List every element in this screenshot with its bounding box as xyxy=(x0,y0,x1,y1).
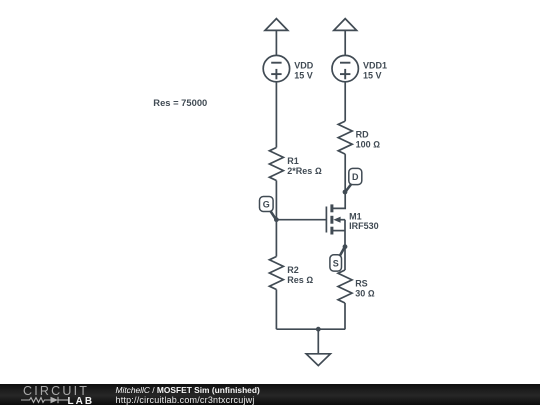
svg-text:15 V: 15 V xyxy=(294,71,313,81)
svg-text:M1: M1 xyxy=(349,211,362,221)
svg-text:30 Ω: 30 Ω xyxy=(355,289,375,299)
svg-text:RD: RD xyxy=(356,129,369,139)
svg-text:D: D xyxy=(352,172,359,182)
svg-text:RS: RS xyxy=(355,279,368,289)
svg-text:S: S xyxy=(333,259,339,269)
svg-text:VDD: VDD xyxy=(294,61,314,71)
svg-text:IRF530: IRF530 xyxy=(349,221,379,231)
svg-text:VDD1: VDD1 xyxy=(363,61,387,71)
svg-text:Res Ω: Res Ω xyxy=(287,275,313,285)
svg-text:2*Res Ω: 2*Res Ω xyxy=(287,166,322,176)
svg-text:100 Ω: 100 Ω xyxy=(356,139,381,149)
svg-text:R2: R2 xyxy=(287,265,299,275)
svg-text:G: G xyxy=(263,200,270,210)
svg-text:R1: R1 xyxy=(287,156,299,166)
svg-text:Res = 75000: Res = 75000 xyxy=(153,97,207,108)
svg-text:15 V: 15 V xyxy=(363,71,382,81)
